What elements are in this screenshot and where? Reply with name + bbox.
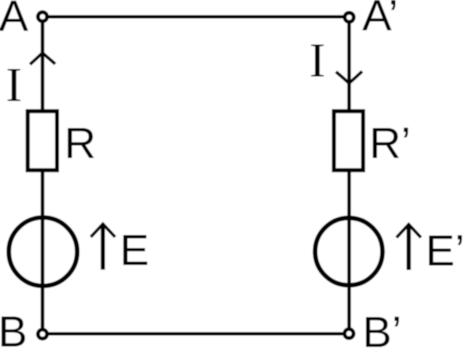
node A' (open terminal)	[345, 13, 354, 22]
node B (open terminal)	[38, 330, 47, 339]
wire: bottom from node B to node B'	[43, 332, 350, 335]
svg-text:E’: E’	[426, 227, 465, 276]
emf arrow for E' (pointing up)	[397, 224, 421, 270]
resistor R	[28, 111, 57, 170]
emf arrow for E (pointing up)	[91, 224, 115, 270]
svg-text:A: A	[0, 0, 29, 41]
wire: top from node A to node A'	[43, 15, 350, 18]
svg-text:I: I	[6, 59, 22, 112]
node A (open terminal)	[38, 12, 47, 21]
source E (circle)	[9, 218, 77, 286]
current arrow I on right branch (pointing down)	[336, 71, 362, 83]
resistor R'	[334, 111, 363, 170]
svg-text:R’: R’	[369, 119, 411, 168]
current arrow I on left branch (pointing up)	[30, 53, 55, 65]
svg-text:B’: B’	[362, 308, 401, 349]
source E' (circle)	[315, 218, 382, 285]
svg-text:E: E	[120, 226, 149, 275]
svg-text:I: I	[309, 34, 325, 87]
svg-text:B: B	[0, 308, 27, 349]
svg-text:A’: A’	[362, 0, 398, 41]
node B' (open terminal)	[344, 329, 353, 338]
svg-text:R: R	[64, 119, 96, 168]
wire: left branch from A down to B	[41, 17, 45, 334]
wire: right branch from A' down to B'	[347, 17, 351, 334]
